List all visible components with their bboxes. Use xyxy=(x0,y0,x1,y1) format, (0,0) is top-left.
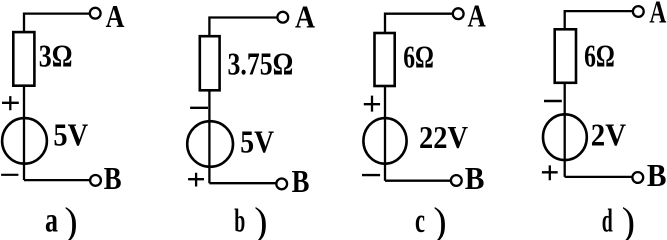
terminal B (b) xyxy=(276,179,287,190)
svg-text:2V: 2V xyxy=(591,116,626,152)
voltage source 5V (b) xyxy=(187,121,233,167)
resistor R 3.75ohm xyxy=(200,36,220,90)
svg-text:a: a xyxy=(45,201,58,240)
svg-text:3Ω: 3Ω xyxy=(39,38,73,74)
plus sign (a) xyxy=(2,96,19,110)
wire top d xyxy=(565,11,633,29)
svg-text:): ) xyxy=(433,199,446,240)
svg-text:B: B xyxy=(104,160,122,196)
svg-text:): ) xyxy=(64,199,77,240)
terminal B (a) xyxy=(90,175,101,186)
terminal A (c) xyxy=(453,8,464,19)
svg-text:b: b xyxy=(234,204,245,240)
svg-text:): ) xyxy=(622,199,635,240)
resistor R 6ohm (c) xyxy=(375,33,395,86)
svg-text:6Ω: 6Ω xyxy=(584,37,615,73)
wire resistor to source to bottom (c) xyxy=(384,86,386,181)
voltage source 22V xyxy=(363,118,406,164)
wire bottom d xyxy=(565,176,633,178)
svg-text:A: A xyxy=(106,0,125,34)
terminal A (a) xyxy=(90,8,101,19)
wire resistor to source to bottom (d) xyxy=(564,83,566,177)
svg-text:6Ω: 6Ω xyxy=(403,39,434,75)
wire resistor to source to bottom (a) xyxy=(23,86,25,180)
minus sign (d) xyxy=(544,100,562,102)
resistor R 3ohm xyxy=(13,32,34,86)
svg-text:5V: 5V xyxy=(53,117,88,153)
svg-text:22V: 22V xyxy=(419,119,468,155)
voltage source 2V xyxy=(543,114,587,160)
voltage source 5V (a) xyxy=(2,118,47,164)
svg-text:A: A xyxy=(468,0,486,34)
wire bottom a xyxy=(24,179,90,181)
wire top a xyxy=(24,14,90,32)
terminal A (d) xyxy=(633,6,644,17)
svg-text:): ) xyxy=(254,199,267,240)
svg-text:A: A xyxy=(295,0,315,35)
wire top b xyxy=(209,18,277,37)
terminal A (b) xyxy=(277,12,288,23)
svg-text:c: c xyxy=(415,201,425,240)
minus sign (b) xyxy=(190,107,208,109)
wire bottom b xyxy=(209,182,276,184)
svg-text:5V: 5V xyxy=(240,124,274,160)
terminal B (d) xyxy=(632,172,643,183)
plus sign (c) xyxy=(364,96,380,112)
plus sign (b) xyxy=(188,173,204,187)
svg-text:B: B xyxy=(465,160,485,196)
svg-text:B: B xyxy=(647,157,667,193)
wire top c xyxy=(385,14,453,33)
resistor R 6ohm (d) xyxy=(555,29,576,83)
svg-text:3.75Ω: 3.75Ω xyxy=(228,46,294,82)
svg-text:A: A xyxy=(649,0,666,29)
svg-text:B: B xyxy=(292,163,310,199)
minus sign (a) xyxy=(1,174,18,176)
terminal B (c) xyxy=(451,175,462,186)
wire bottom c xyxy=(385,180,451,182)
svg-text:d: d xyxy=(602,204,613,240)
minus sign (c) xyxy=(362,174,380,176)
plus sign (d) xyxy=(542,165,558,180)
wire resistor to source to bottom (b) xyxy=(208,90,210,183)
